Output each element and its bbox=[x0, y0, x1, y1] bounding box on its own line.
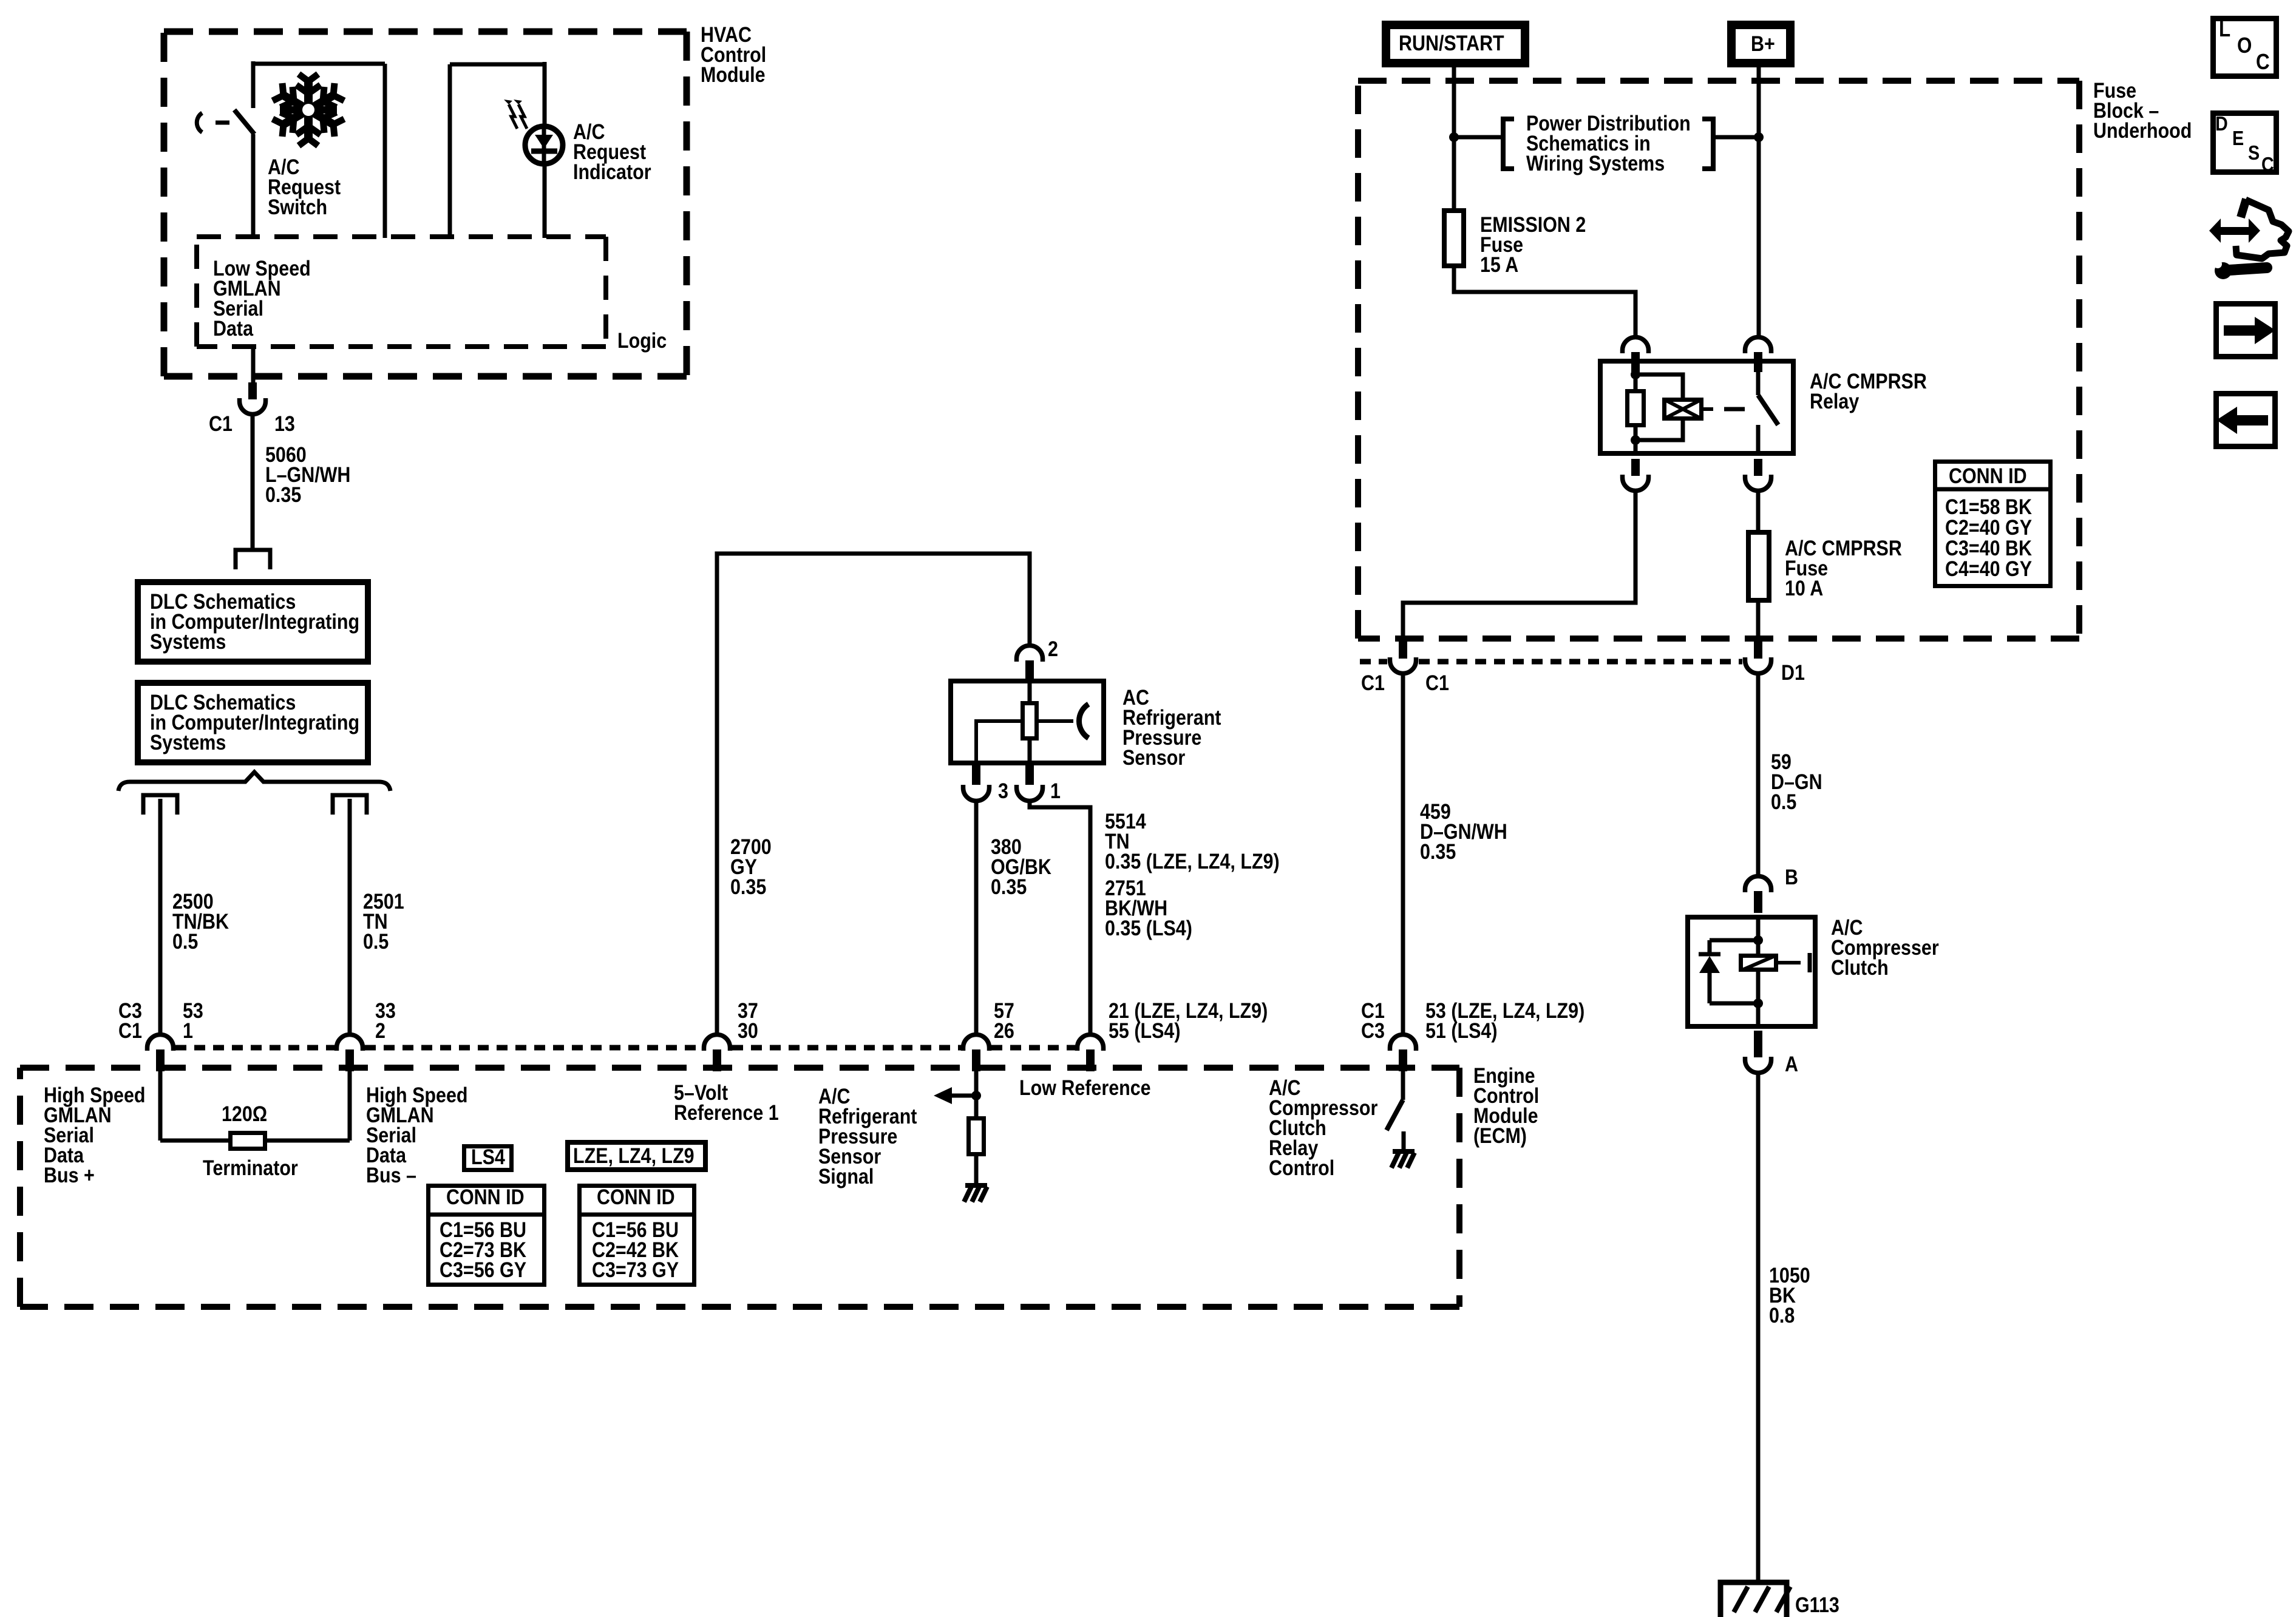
A/C request switch blade bbox=[234, 110, 254, 134]
A/C request indicator frame bbox=[450, 62, 545, 238]
label DLC Schematics 2 bbox=[150, 693, 359, 753]
wire 2500 TN/BK bbox=[158, 799, 163, 1034]
wire 5060 L-GN/WH bbox=[251, 414, 255, 550]
label A/C CMPRSR Relay bbox=[1810, 371, 1927, 412]
pin label A bbox=[1785, 1054, 1798, 1074]
fuse EMISSION 2 15A bbox=[1444, 211, 1464, 266]
label Terminator bbox=[203, 1158, 298, 1178]
pin label B bbox=[1785, 867, 1798, 887]
pin label C1 bbox=[209, 414, 233, 434]
loc letter O bbox=[2237, 35, 2252, 56]
B+ feed box bbox=[1731, 25, 1790, 63]
table header CONN ID (LS4) bbox=[446, 1187, 525, 1207]
loc letter L bbox=[2219, 18, 2230, 40]
connector A (clutch) bbox=[1745, 1031, 1771, 1073]
wire relay to fuse 10A bbox=[1756, 490, 1761, 530]
pin label 37 30 bbox=[738, 1001, 758, 1041]
label Logic bbox=[617, 331, 667, 351]
tag LZE LZ4 LZ9 bbox=[573, 1146, 695, 1166]
Fuse Block Underhood box bbox=[1358, 81, 2079, 639]
sensor pressure port symbol bbox=[1079, 704, 1089, 738]
wire label 2700 GY 0.35 bbox=[730, 837, 772, 897]
relay pin connector right top bbox=[1745, 337, 1771, 373]
table rows (fuse block) bbox=[1945, 497, 2032, 580]
desc letter S bbox=[2248, 143, 2260, 163]
desc letter C bbox=[2261, 154, 2274, 174]
label G113 bbox=[1795, 1595, 1839, 1615]
wire 5514 TN / 2751 BK/WH bbox=[1030, 801, 1090, 1034]
brace bbox=[118, 772, 390, 791]
LS4 tag box bbox=[464, 1147, 512, 1170]
tag LS4 bbox=[471, 1147, 505, 1167]
wire label 59 D-GN 0.5 bbox=[1771, 752, 1822, 812]
pin label 53 51 bbox=[1425, 1001, 1584, 1041]
power distribution right bracket bbox=[1702, 119, 1759, 169]
wire fuse to relay bbox=[1454, 268, 1635, 336]
sensor pin 3 bbox=[963, 765, 990, 801]
wire label 2751 BK/WH bbox=[1105, 878, 1192, 938]
switch S1 frame wires bbox=[253, 61, 385, 238]
wire label 5060 L-GN/WH 0.35 bbox=[265, 445, 350, 505]
label A/C Compresser Clutch bbox=[1831, 918, 1939, 978]
connector pin 33/2 bbox=[337, 1035, 363, 1072]
connector B (clutch) bbox=[1745, 876, 1771, 914]
A/C CMPRSR relay box K1 bbox=[1600, 361, 1793, 453]
LOC icon box bbox=[2213, 19, 2277, 76]
connector C1 (fuse block) bbox=[1390, 642, 1416, 674]
off-page bracket bus + bbox=[143, 795, 177, 815]
sensor internal resistor bbox=[1023, 679, 1037, 765]
pin label C1 right bbox=[1425, 673, 1449, 693]
table header CONN ID (fuse block) bbox=[1949, 466, 2027, 486]
wire 380 OG/BK bbox=[974, 801, 979, 1034]
label HVAC Control Module bbox=[701, 25, 766, 85]
CONN ID table (fuse block) bbox=[1933, 462, 2053, 586]
relay pin connector right bottom bbox=[1745, 459, 1771, 491]
label EMISSION 2 Fuse 15 A bbox=[1480, 215, 1586, 275]
connector pin 37/30 bbox=[704, 1035, 730, 1072]
pin label 3 bbox=[998, 781, 1008, 801]
table rows (LZE) bbox=[592, 1220, 679, 1280]
pin label C1 C3 bbox=[1361, 1001, 1385, 1041]
label RUN/START bbox=[1399, 33, 1504, 53]
label 5-Volt Reference 1 bbox=[674, 1083, 779, 1123]
ECM connector row dotted line bbox=[175, 1045, 1075, 1051]
wire 1050 BK bbox=[1756, 1073, 1761, 1582]
label B+ bbox=[1751, 34, 1775, 54]
wire 2501 TN bbox=[348, 799, 352, 1034]
wire relay to C1 bbox=[1403, 490, 1635, 637]
label AC Refrigerant Pressure Sensor bbox=[1123, 688, 1221, 768]
connector D1 (fuse block) bbox=[1745, 642, 1771, 674]
wire RUN/START to fuse bbox=[1449, 67, 1459, 208]
desc letter D bbox=[2215, 114, 2228, 134]
clutch coil bbox=[1741, 956, 1776, 971]
wire 59 D-GN bbox=[1756, 674, 1761, 875]
wire 5060 upper segment bbox=[251, 347, 256, 384]
connector pin 57/26 bbox=[963, 1035, 990, 1072]
CONN ID table (LZE) bbox=[577, 1186, 696, 1285]
label High Speed GMLAN Bus - bbox=[366, 1085, 468, 1185]
label Low Reference bbox=[1019, 1078, 1151, 1098]
DLC schematics box 2 bbox=[138, 683, 368, 762]
wire label 2500 TN/BK 0.5 bbox=[172, 892, 229, 952]
connector pin 21/55 bbox=[1078, 1035, 1104, 1072]
pin label 13 bbox=[274, 414, 295, 434]
pin label C1 left bbox=[1361, 673, 1385, 693]
clutch air gap bbox=[1778, 953, 1810, 972]
label A/C CMPRSR Fuse 10 A bbox=[1785, 538, 1902, 598]
label Low Speed GMLAN Serial Data bbox=[213, 259, 311, 339]
back arrow icon bbox=[2216, 394, 2275, 447]
label A/C Compressor Clutch Relay Control bbox=[1269, 1078, 1377, 1178]
ground G113 bbox=[1720, 1582, 1790, 1617]
LED D1 indicator bbox=[525, 126, 563, 164]
sensor pin 1 bbox=[1017, 765, 1043, 801]
relay coil to switch dashed link bbox=[1703, 407, 1745, 411]
power distribution left bracket bbox=[1454, 119, 1514, 169]
pin label 33 2 bbox=[375, 1001, 396, 1041]
connector pin 2 bbox=[1017, 646, 1043, 679]
loc letter C bbox=[2256, 51, 2270, 73]
wire label 5514 TN bbox=[1105, 812, 1280, 872]
sensor internal wiring bbox=[976, 719, 1073, 765]
off-page bracket bus - bbox=[333, 795, 367, 815]
resistor terminator 120 ohm bbox=[231, 1133, 265, 1149]
pin label D1 bbox=[1781, 663, 1805, 683]
RUN/START feed box bbox=[1386, 25, 1525, 63]
table rows (LS4) bbox=[440, 1220, 526, 1280]
label A/C Request Switch bbox=[268, 157, 341, 217]
DLC schematics box 1 bbox=[138, 582, 368, 662]
fuse A/C CMPRSR 10A bbox=[1748, 532, 1769, 600]
pin label 57 26 bbox=[994, 1001, 1014, 1041]
relay pin connector left bottom bbox=[1623, 459, 1649, 491]
low reference resistor bbox=[969, 1070, 984, 1185]
pin label C3 C1 bbox=[118, 1001, 142, 1041]
LED light arrows bbox=[504, 100, 527, 129]
ECM box bbox=[20, 1068, 1459, 1307]
label DLC Schematics 1 bbox=[150, 592, 359, 652]
label Engine Control Module (ECM) bbox=[1473, 1066, 1539, 1146]
label Fuse Block Underhood bbox=[2093, 81, 2192, 141]
relay coil circuit bbox=[1628, 370, 1683, 456]
clutch internal wiring bbox=[1710, 915, 1763, 1029]
pin label 53 1 bbox=[183, 1001, 203, 1041]
wire fuse to D1 bbox=[1756, 603, 1761, 637]
ground (low reference) bbox=[964, 1185, 987, 1202]
label A/C Request Indicator bbox=[573, 122, 651, 182]
connector C1/C3 pin 53/51 bbox=[1390, 1035, 1416, 1072]
relay coil box symbol bbox=[1664, 399, 1702, 419]
wire label 2501 TN 0.5 bbox=[363, 892, 404, 952]
label A/C Refrigerant Pressure Sensor Signal bbox=[818, 1086, 917, 1187]
pin label 1 bbox=[1050, 781, 1061, 801]
signal arrow bbox=[934, 1087, 981, 1104]
HVAC Control Module box bbox=[164, 32, 687, 376]
logic box (Low Speed GMLAN Serial Data) bbox=[197, 237, 606, 347]
connector C3/C1 pin 53/1 bbox=[148, 1035, 174, 1072]
forward arrow icon bbox=[2216, 304, 2276, 357]
AC refrigerant pressure sensor box bbox=[951, 681, 1104, 763]
switch actuator dash bbox=[197, 113, 229, 132]
wire 2700 GY bbox=[717, 554, 1030, 1034]
CONN ID table (LS4) bbox=[426, 1186, 546, 1285]
connector C1 pin 13 bbox=[240, 382, 266, 415]
terminator circuit wires bbox=[160, 1070, 350, 1141]
wire label 1050 BK 0.8 bbox=[1769, 1266, 1810, 1326]
label 120 ohm bbox=[222, 1104, 267, 1124]
label Power Distribution Schematics bbox=[1526, 114, 1691, 174]
pin label 2 bbox=[1048, 639, 1058, 659]
A/C compressor clutch box bbox=[1688, 917, 1815, 1026]
off-page bracket to DLC bbox=[236, 550, 270, 569]
table header CONN ID (LZE) bbox=[597, 1187, 675, 1207]
wire label 380 OG/BK 0.35 bbox=[991, 837, 1051, 897]
DESC icon box bbox=[2213, 114, 2277, 172]
pin label 21 55 bbox=[1109, 1001, 1268, 1041]
clutch diode bbox=[1699, 954, 1720, 973]
wire label 459 D-GN/WH 0.35 bbox=[1420, 802, 1507, 862]
LZE LZ4 LZ9 tag box bbox=[568, 1142, 705, 1170]
wire 459 D-GN/WH bbox=[1401, 674, 1405, 1034]
wire B+ down bbox=[1754, 67, 1764, 336]
ground (relay control) bbox=[1391, 1151, 1415, 1168]
clutch relay control switch bbox=[1387, 1070, 1404, 1151]
snowflake icon bbox=[273, 74, 344, 146]
desc letter E bbox=[2232, 128, 2244, 148]
label High Speed GMLAN Bus + bbox=[44, 1085, 146, 1185]
fuse block connector dotted line bbox=[1360, 659, 1742, 665]
relay switch bbox=[1758, 371, 1778, 456]
vehicle/wrench icon bbox=[2209, 199, 2289, 279]
relay pin connector left top bbox=[1623, 337, 1649, 373]
